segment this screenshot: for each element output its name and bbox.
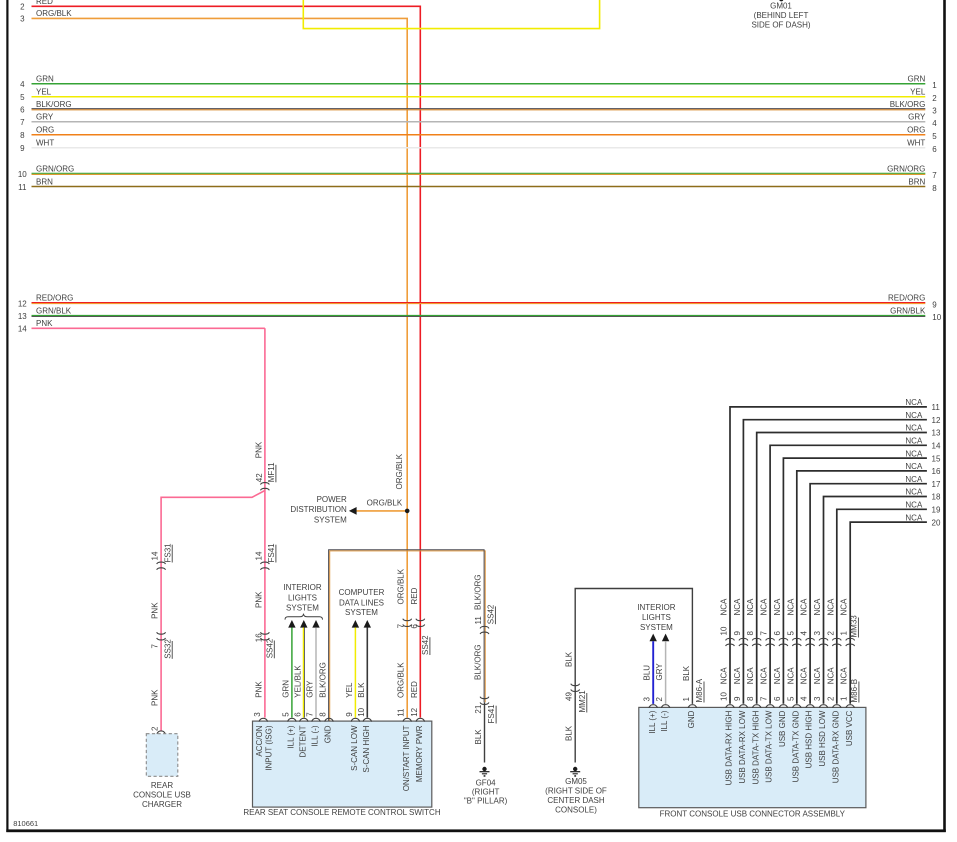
svg-text:5: 5 [20, 93, 25, 102]
svg-text:PNK: PNK [151, 602, 160, 619]
svg-text:POWER: POWER [317, 495, 347, 504]
wire NCA row 14 [770, 445, 927, 703]
label NCA upper wire 8 [746, 598, 755, 616]
svg-text:NCA: NCA [720, 667, 729, 685]
svg-text:NCA: NCA [733, 667, 742, 685]
wire YEL S-CAN LOW [354, 628, 356, 718]
label NCA lower wire 3 [813, 667, 822, 685]
svg-text:SYSTEM: SYSTEM [640, 623, 673, 632]
svg-text:8: 8 [319, 712, 328, 717]
svg-text:10: 10 [18, 170, 27, 179]
pin 5 rear seat box [281, 712, 290, 717]
svg-text:BLK: BLK [682, 665, 691, 681]
svg-text:GRY: GRY [306, 680, 315, 698]
pin label USB DATA-TX LOW [765, 710, 774, 783]
wire row 12 RED/ORG [32, 302, 926, 304]
svg-text:ORG/BLK: ORG/BLK [397, 662, 406, 698]
svg-text:COMPUTER: COMPUTER [339, 588, 385, 597]
pin label ILL (+) [648, 710, 657, 733]
svg-text:BLK/ORG: BLK/ORG [890, 100, 926, 109]
svg-text:ORG/BLK: ORG/BLK [36, 9, 72, 18]
svg-text:SS42: SS42 [265, 638, 274, 658]
svg-text:19: 19 [932, 506, 941, 515]
svg-text:4: 4 [800, 696, 809, 701]
svg-text:USB VCC: USB VCC [845, 710, 854, 746]
label PNK above MF11 [254, 441, 263, 458]
pin 7 front box USB [760, 696, 769, 701]
label BLK [357, 682, 366, 698]
svg-text:7: 7 [306, 712, 315, 717]
svg-text:NCA: NCA [826, 667, 835, 685]
svg-text:SYSTEM: SYSTEM [314, 515, 347, 524]
svg-text:LIGHTS: LIGHTS [288, 593, 317, 602]
svg-text:GRN/ORG: GRN/ORG [36, 165, 74, 174]
connector MM33 pin 9 [733, 631, 742, 636]
svg-text:USB DATA-TX HIGH: USB DATA-TX HIGH [751, 710, 760, 784]
svg-text:NCA: NCA [905, 462, 923, 471]
pin 1 front box USB [840, 696, 849, 701]
wire NCA row 20 [850, 522, 927, 704]
pin label USB DATA-RX LOW [738, 710, 747, 783]
svg-text:NCA: NCA [800, 667, 809, 685]
wire row 14 PNK [32, 327, 265, 329]
svg-text:5: 5 [281, 712, 290, 717]
brace over interior lights wires [285, 614, 323, 620]
connector MM33 pin 8 [746, 631, 755, 636]
svg-text:12: 12 [18, 299, 27, 308]
wire row 13 GRN/BLK [32, 314, 926, 316]
wire row 11 BRN [32, 186, 926, 188]
svg-text:42: 42 [255, 473, 264, 482]
svg-text:CONSOLE): CONSOLE) [555, 806, 597, 815]
pin 8 rear seat box [319, 712, 328, 717]
svg-text:49: 49 [565, 692, 574, 701]
svg-text:(RIGHT: (RIGHT [472, 788, 500, 797]
svg-text:YEL: YEL [36, 88, 52, 97]
label NCA upper wire 9 [733, 598, 742, 616]
svg-text:S-CAN HIGH: S-CAN HIGH [362, 725, 371, 772]
svg-text:LIGHTS: LIGHTS [642, 613, 671, 622]
pin 9 rear seat box [345, 712, 354, 717]
component FRONT CONSOLE USB CONNECTOR ASSEMBLY [639, 707, 866, 807]
wire NCA row 15 [783, 458, 927, 704]
svg-text:MF11: MF11 [267, 462, 276, 482]
pin label USB DATA-TX GND [791, 710, 800, 782]
svg-text:ILL (+): ILL (+) [287, 725, 296, 748]
svg-text:NCA: NCA [746, 667, 755, 685]
pin 9 front box USB [733, 696, 742, 701]
svg-text:BLK/ORG: BLK/ORG [474, 644, 483, 680]
svg-text:NCA: NCA [760, 667, 769, 685]
svg-text:9: 9 [345, 712, 354, 717]
label RED lower [410, 681, 419, 698]
connector MM21 pin 49 [571, 684, 580, 692]
svg-text:FRONT CONSOLE USB CONNECTOR AS: FRONT CONSOLE USB CONNECTOR ASSEMBLY [660, 810, 846, 819]
svg-text:PNK: PNK [151, 689, 160, 706]
wire row 3 ORG/BLK vertical feed [32, 18, 408, 717]
svg-text:SYSTEM: SYSTEM [345, 608, 378, 617]
svg-text:2: 2 [655, 697, 664, 702]
label NCA upper wire 1 [840, 598, 849, 616]
label NCA upper wire 5 [786, 598, 795, 616]
svg-text:3: 3 [813, 631, 822, 636]
pin label USB DATA-RX HIGH [725, 710, 734, 785]
svg-text:GRY: GRY [908, 113, 926, 122]
svg-text:10: 10 [720, 692, 729, 701]
svg-text:3: 3 [813, 696, 822, 701]
svg-text:NCA: NCA [746, 598, 755, 616]
label NCA upper wire 3 [813, 598, 822, 616]
pin 10 rear seat box [357, 707, 366, 716]
svg-text:GND: GND [687, 710, 696, 728]
svg-text:NCA: NCA [905, 437, 923, 446]
svg-text:8: 8 [746, 696, 755, 701]
wire YEL/BLK DETENT [302, 628, 304, 718]
svg-text:3: 3 [932, 107, 937, 116]
pin 2 front box USB [826, 696, 835, 701]
connector MM33 pin 6 [773, 631, 782, 636]
label NCA lower wire 6 [773, 667, 782, 685]
svg-text:PNK: PNK [254, 681, 263, 698]
svg-text:YEL: YEL [910, 88, 926, 97]
wire NCA row 18 [824, 497, 927, 704]
svg-text:6: 6 [773, 696, 782, 701]
svg-text:NCA: NCA [840, 667, 849, 685]
svg-text:9: 9 [733, 631, 742, 636]
svg-text:12: 12 [932, 416, 941, 425]
svg-text:ACC/ON: ACC/ON [255, 725, 264, 756]
svg-text:NCA: NCA [905, 424, 923, 433]
svg-text:2: 2 [826, 696, 835, 701]
wire NCA row 11 [730, 407, 927, 704]
svg-text:10: 10 [932, 313, 941, 322]
pin 1 front box [682, 697, 691, 702]
pin label USB DATA-RX GND [831, 710, 840, 783]
wire PNK branch to charger [161, 491, 265, 731]
svg-text:3: 3 [253, 712, 262, 717]
pin label USB GND [778, 710, 787, 747]
svg-text:7: 7 [20, 118, 25, 127]
wire row 2 RED (to GM01 area) [32, 6, 421, 717]
connector MM33 pin 2 [826, 631, 835, 636]
svg-text:BLK: BLK [565, 725, 574, 741]
label PNK lower main [254, 681, 263, 698]
svg-text:CONSOLE USB: CONSOLE USB [133, 791, 191, 800]
label BLK/ORG pin 8 [319, 662, 328, 698]
pin 3 front box [643, 697, 652, 702]
svg-text:(RIGHT SIDE OF: (RIGHT SIDE OF [545, 787, 607, 796]
svg-text:NCA: NCA [905, 411, 923, 420]
wire row 5 YEL [32, 96, 926, 98]
arrow BLU [650, 634, 657, 642]
pin 2 front box [655, 697, 664, 702]
svg-text:5: 5 [932, 132, 937, 141]
arrow GRY [312, 620, 319, 628]
label BLK/ORG above SS42-11 [474, 574, 483, 610]
svg-text:8: 8 [746, 631, 755, 636]
svg-text:GRY: GRY [36, 113, 54, 122]
svg-text:DATA LINES: DATA LINES [339, 598, 384, 607]
label NCA upper wire 2 [826, 598, 835, 616]
connector SS32 pin 7 [157, 632, 166, 640]
label PNK main between FS41 SS42 [254, 591, 263, 608]
svg-text:WHT: WHT [907, 139, 925, 148]
arrow YEL/BLK [300, 620, 307, 628]
wire BLU ILL(+) [652, 641, 654, 704]
svg-text:GM01: GM01 [770, 2, 792, 11]
svg-text:SIDE OF DASH): SIDE OF DASH) [751, 21, 810, 30]
svg-text:S-CAN LOW: S-CAN LOW [350, 725, 359, 771]
label NCA lower wire 9 [733, 667, 742, 685]
svg-text:NCA: NCA [905, 513, 923, 522]
svg-text:7: 7 [397, 623, 406, 628]
wire row 8 ORG [32, 134, 926, 136]
svg-text:BLK/ORG: BLK/ORG [319, 662, 328, 698]
connector FS41 pin 14 [261, 562, 270, 570]
svg-text:NCA: NCA [905, 398, 923, 407]
label NCA upper wire 10 [720, 598, 729, 616]
svg-text:9: 9 [20, 144, 25, 153]
wire row 10 GRN/ORG [32, 172, 926, 174]
node junction dot ORG/BLK [405, 509, 410, 514]
label BLK upper [565, 651, 574, 667]
svg-text:SS42: SS42 [487, 604, 496, 624]
connector SS42 pin 16 [261, 632, 270, 640]
svg-text:7: 7 [760, 696, 769, 701]
connector M86-B label [850, 679, 859, 703]
svg-text:RED/ORG: RED/ORG [888, 294, 925, 303]
svg-text:NCA: NCA [905, 475, 923, 484]
svg-text:ORG: ORG [36, 126, 54, 135]
svg-text:6: 6 [410, 624, 419, 629]
svg-text:6: 6 [293, 712, 302, 717]
label YEL [345, 682, 354, 698]
pin 3 front box USB [813, 696, 822, 701]
svg-text:ON/START INPUT: ON/START INPUT [402, 725, 411, 791]
svg-text:8: 8 [932, 184, 937, 193]
pin 12 rear seat box [410, 707, 419, 716]
svg-text:13: 13 [18, 312, 27, 321]
svg-text:15: 15 [932, 454, 941, 463]
svg-text:GM05: GM05 [565, 777, 587, 786]
svg-text:10: 10 [357, 707, 366, 716]
wire row 6 BLK/ORG [32, 108, 926, 110]
arrow to power distribution system [349, 507, 357, 515]
svg-text:INPUT (ISG): INPUT (ISG) [265, 725, 274, 771]
wire row 4 GRN [32, 83, 926, 85]
svg-text:BRN: BRN [36, 177, 53, 186]
label NCA lower wire 10 [720, 667, 729, 685]
connector MM33 pin 1 [840, 631, 849, 636]
svg-text:NCA: NCA [840, 598, 849, 616]
wire BLK to GF04 [484, 702, 486, 762]
wire NCA row 19 [837, 509, 927, 703]
label GRN [281, 680, 290, 698]
pin label USB HSD HIGH [805, 710, 814, 768]
component REAR CONSOLE USB CHARGER [146, 734, 178, 777]
svg-text:BLK: BLK [565, 651, 574, 667]
svg-text:NCA: NCA [760, 598, 769, 616]
svg-text:GRN: GRN [908, 75, 926, 84]
svg-text:DETENT: DETENT [298, 725, 307, 757]
svg-text:14: 14 [932, 442, 941, 451]
svg-text:2: 2 [826, 631, 835, 636]
svg-text:SYSTEM: SYSTEM [286, 604, 319, 613]
svg-text:7: 7 [151, 644, 160, 649]
svg-text:USB DATA-RX HIGH: USB DATA-RX HIGH [725, 710, 734, 785]
svg-text:ORG/BLK: ORG/BLK [397, 568, 406, 604]
svg-text:RED: RED [36, 0, 53, 6]
svg-text:GRN/ORG: GRN/ORG [887, 165, 925, 174]
svg-text:6: 6 [20, 106, 25, 115]
label BLK/ORG below SS42-11 [474, 644, 483, 680]
connector MM33 pin 5 [786, 631, 795, 636]
arrow BLK [364, 620, 371, 628]
svg-text:PNK: PNK [36, 319, 53, 328]
pin 11 rear seat box [397, 708, 406, 717]
wire GRY ILL(-) [315, 628, 317, 718]
arrow GRY [662, 634, 669, 642]
wire NCA row 12 [743, 420, 927, 704]
svg-text:4: 4 [800, 631, 809, 636]
wire BLK pin1 to GM05 [575, 589, 692, 763]
svg-text:1: 1 [932, 81, 937, 90]
pin label GND [687, 710, 696, 728]
label NCA lower wire 5 [786, 667, 795, 685]
ground GM05 [570, 767, 580, 777]
svg-text:6: 6 [773, 631, 782, 636]
svg-text:NCA: NCA [733, 598, 742, 616]
ground GF04 [480, 767, 490, 777]
svg-text:GRN: GRN [36, 75, 54, 84]
svg-text:12: 12 [410, 707, 419, 716]
svg-text:RED: RED [410, 681, 419, 698]
svg-text:ORG/BLK: ORG/BLK [367, 498, 403, 507]
svg-text:NCA: NCA [786, 598, 795, 616]
label NCA upper wire 6 [773, 598, 782, 616]
svg-text:BRN: BRN [908, 177, 925, 186]
label NCA lower wire 4 [800, 667, 809, 685]
connector FS31 pin 14 [157, 562, 166, 570]
wire yellow loop at top [303, 0, 599, 29]
pin 2 rear console usb charger [151, 726, 160, 731]
svg-text:MM33: MM33 [850, 615, 859, 638]
svg-text:16: 16 [932, 467, 941, 476]
svg-text:GRN/BLK: GRN/BLK [890, 307, 926, 316]
label NCA lower wire 2 [826, 667, 835, 685]
connector MM33 pin 3 [813, 631, 822, 636]
svg-text:BLK/ORG: BLK/ORG [36, 100, 72, 109]
svg-text:ORG: ORG [907, 126, 925, 135]
svg-text:4: 4 [20, 80, 25, 89]
svg-text:GRN: GRN [281, 680, 290, 698]
svg-text:2: 2 [932, 94, 937, 103]
svg-text:RED: RED [410, 587, 419, 604]
svg-text:NCA: NCA [786, 667, 795, 685]
wire NCA row 17 [810, 484, 927, 704]
label PNK left branch [151, 602, 160, 619]
label GRY [655, 663, 664, 681]
wire row 9 WHT [32, 147, 926, 149]
svg-text:USB DATA-TX GND: USB DATA-TX GND [791, 710, 800, 782]
svg-text:NCA: NCA [826, 598, 835, 616]
label NCA upper wire 4 [800, 598, 809, 616]
svg-text:BLK: BLK [474, 729, 483, 745]
label ORG/BLK vertical above junction [395, 453, 404, 489]
svg-text:11: 11 [932, 403, 941, 412]
svg-text:10: 10 [720, 626, 729, 635]
wire NCA row 16 [797, 471, 927, 704]
svg-text:1: 1 [840, 631, 849, 636]
svg-text:11: 11 [474, 616, 483, 625]
svg-text:NCA: NCA [773, 598, 782, 616]
connector M86-A [695, 678, 704, 702]
svg-text:1: 1 [840, 696, 849, 701]
svg-text:NCA: NCA [905, 488, 923, 497]
label YEL/BLK [293, 665, 302, 698]
component REAR SEAT CONSOLE REMOTE CONTROL SWITCH [253, 721, 432, 807]
connector MM33 pin 10 [720, 626, 729, 635]
svg-text:3: 3 [643, 697, 652, 702]
wire NCA row 13 [757, 433, 927, 704]
svg-text:YEL: YEL [345, 682, 354, 698]
label NCA lower wire 1 [840, 667, 849, 685]
arrow GRN [288, 620, 295, 628]
svg-text:GRN/BLK: GRN/BLK [36, 307, 72, 316]
wire BLK S-CAN HIGH [366, 628, 368, 718]
svg-text:GF04: GF04 [476, 779, 497, 788]
svg-text:2: 2 [20, 3, 25, 12]
svg-text:20: 20 [932, 518, 941, 527]
svg-text:3: 3 [20, 15, 25, 24]
pin 6 rear seat box [293, 712, 302, 717]
wire GRY ILL(-) [665, 641, 667, 704]
svg-text:REAR SEAT CONSOLE REMOTE CONTR: REAR SEAT CONSOLE REMOTE CONTROL SWITCH [243, 808, 440, 817]
svg-text:16: 16 [254, 633, 263, 642]
svg-text:14: 14 [151, 551, 160, 560]
wire BLK/ORG GND path [330, 551, 486, 721]
svg-text:DISTRIBUTION: DISTRIBUTION [290, 505, 347, 514]
svg-text:11: 11 [18, 183, 27, 192]
svg-text:FS41: FS41 [267, 543, 276, 563]
connector SS42 pin 6 [416, 619, 425, 627]
svg-text:NCA: NCA [905, 449, 923, 458]
wire GRN ILL(+) [291, 628, 293, 718]
svg-text:GRY: GRY [655, 663, 664, 681]
pin label USB HSD LOW [818, 710, 827, 766]
label BLK pin1 [682, 665, 691, 681]
connector MF11 pin 42 [261, 483, 270, 491]
wire PNK main vertical [264, 328, 266, 717]
svg-text:2: 2 [151, 726, 160, 731]
svg-text:RED/ORG: RED/ORG [36, 294, 73, 303]
svg-text:8: 8 [20, 131, 25, 140]
svg-text:21: 21 [474, 704, 483, 713]
svg-text:USB DATA-RX GND: USB DATA-RX GND [831, 710, 840, 783]
svg-text:810661: 810661 [13, 819, 38, 828]
svg-text:M86-B: M86-B [850, 679, 859, 703]
svg-text:7: 7 [932, 171, 937, 180]
pin label ILL (-) [660, 710, 669, 731]
pin 3 rear seat box [253, 712, 262, 717]
label NCA upper wire 7 [760, 598, 769, 616]
wire row 7 GRY [32, 121, 926, 123]
svg-text:NCA: NCA [720, 598, 729, 616]
pin label USB VCC [845, 710, 854, 746]
svg-text:ILL (-): ILL (-) [311, 725, 320, 746]
svg-text:14: 14 [18, 325, 27, 334]
connector SS42 pin 11 [480, 626, 489, 634]
